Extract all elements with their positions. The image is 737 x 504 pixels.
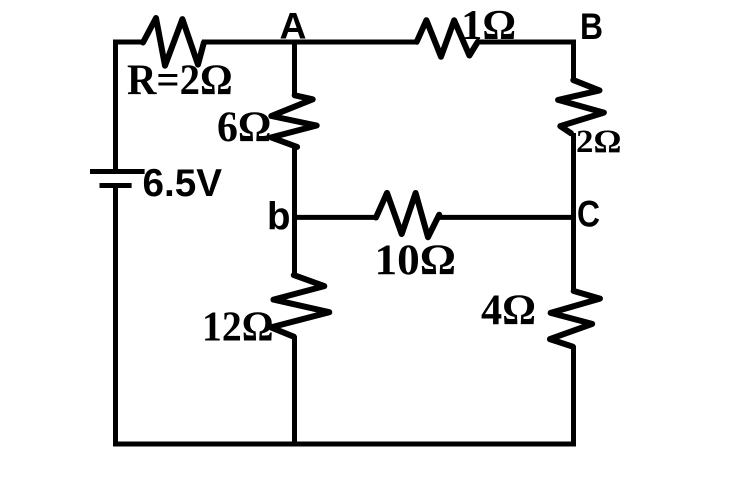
svg-text:C: C [577, 194, 600, 235]
resistor R7 12ohm [271, 275, 329, 337]
wire 1ohm to node B [477, 42, 574, 81]
wire bottom [113, 442, 576, 447]
svg-text:b: b [267, 196, 291, 239]
svg-text:6.5V: 6.5V [143, 162, 223, 205]
wire node C to resistor 4ohm [571, 215, 576, 292]
wire node A to resistor 1ohm [295, 40, 418, 45]
svg-text:6Ω: 6Ω [217, 104, 271, 151]
wire R to node A [202, 40, 296, 45]
wire 10ohm to node C [439, 215, 576, 220]
wire 2ohm to node C [571, 133, 576, 219]
wire 12ohm to bottom [292, 336, 297, 446]
svg-text:12Ω: 12Ω [202, 303, 274, 350]
svg-text:10Ω: 10Ω [375, 236, 457, 284]
svg-text:4Ω: 4Ω [481, 286, 536, 334]
svg-text:R=2Ω: R=2Ω [127, 57, 233, 104]
resistor R2 1ohm [417, 20, 478, 57]
wire node b to resistor 12ohm [292, 215, 297, 276]
resistor R4 4ohm [550, 291, 600, 347]
resistor R5 6ohm [271, 95, 316, 147]
wire 4ohm to bottom right corner [571, 346, 576, 444]
wire battery positive to resistor R [116, 42, 145, 171]
wire node A to resistor 6ohm [292, 42, 297, 96]
resistor R3 2ohm [558, 80, 604, 133]
resistor R6 10ohm [376, 193, 439, 237]
battery B1 6.5V [90, 172, 145, 186]
wire node b to resistor 10ohm [295, 215, 377, 220]
svg-text:B: B [580, 6, 603, 47]
svg-text:2Ω: 2Ω [576, 124, 621, 160]
resistor R1 R=2ohm [143, 18, 204, 66]
wire battery negative to bottom [113, 185, 118, 446]
wire 6ohm to node b [292, 147, 297, 220]
